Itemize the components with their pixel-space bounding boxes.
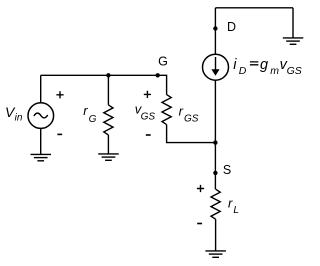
wire current source bottom lead to junction [214,80,216,142]
junction of gate bus and rG [106,73,110,77]
label rL plus [197,185,204,192]
label iD = gm vGS [233,57,302,77]
wire Vin bottom lead [40,128,42,154]
label rL minus [197,223,202,225]
svg-text:GS: GS [287,65,302,77]
wire junction to node S [214,143,216,173]
svg-text:GS: GS [184,114,199,125]
wire node S to rL top [214,173,216,189]
svg-text:S: S [223,163,231,177]
wire top drain bus [215,7,293,9]
svg-text:GS: GS [141,111,156,122]
node G [156,55,168,78]
wire Vin top lead [40,75,42,103]
ground below rG [98,154,119,160]
current source iD (dependent source gm*vGS) [203,54,229,80]
svg-text:m: m [270,65,279,77]
resistor rGS [162,95,171,125]
voltage label vGS with + and - [135,91,156,135]
label rGS [179,104,199,125]
wire down to top-right ground [292,8,294,38]
resistor rL [211,189,220,219]
svg-text:D: D [227,20,236,34]
wire from node G to rGS top [158,75,167,94]
wire rG top lead [107,75,109,105]
node S [213,163,231,177]
wire from rGS bottom to source line [167,125,216,143]
wire current source top lead [214,8,216,54]
svg-text:L: L [233,205,239,216]
ground below Vin [31,154,52,160]
svg-text:r: r [83,103,88,118]
label Vin minus [57,133,62,135]
label rG [83,103,96,125]
node D [213,20,236,34]
source Vin (sine voltage source) [28,103,54,129]
svg-text:D: D [239,65,247,77]
svg-text:G: G [158,55,168,69]
ground bottom right [205,251,226,257]
junction of rGS return and source line [213,140,217,144]
resistor rG [104,105,113,135]
svg-text:g: g [260,57,268,73]
svg-text:G: G [89,114,97,125]
wire rG bottom lead [107,135,109,154]
svg-text:in: in [15,113,23,124]
wire gate bus from Vin to node G [41,74,158,76]
wire rL bottom lead [215,219,217,251]
svg-text:r: r [179,104,184,119]
label Vin plus [56,91,63,98]
label Vin [5,104,23,124]
label rL [228,195,239,216]
svg-text:r: r [228,195,233,210]
ground top right [283,38,304,44]
